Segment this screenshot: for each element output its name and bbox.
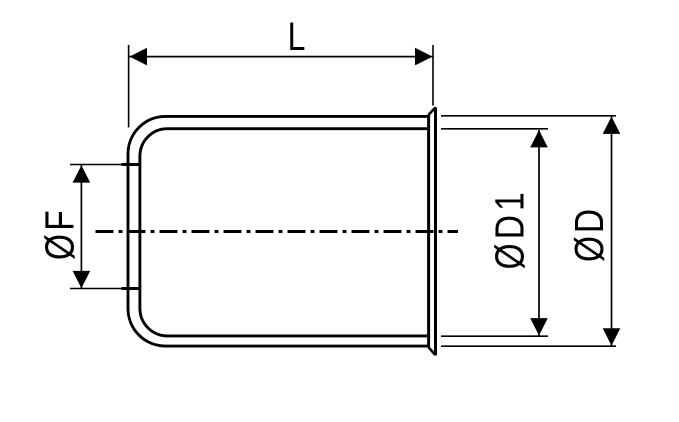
hole edge tick bottom bbox=[122, 287, 140, 290]
dimension D1 extension line bottom bbox=[441, 335, 548, 337]
flange bottom slant bbox=[429, 347, 436, 355]
flange right edge bbox=[434, 107, 437, 355]
dimension F arrow up bbox=[73, 165, 91, 182]
dimension D arrow up bbox=[603, 117, 621, 134]
centerline bbox=[96, 230, 459, 233]
flange top slant bbox=[429, 107, 436, 114]
dimension F extension line bottom bbox=[70, 288, 126, 290]
cap body inner contour bbox=[140, 129, 427, 336]
dimension F arrow down bbox=[73, 271, 91, 288]
dimension F extension line top bbox=[70, 164, 126, 166]
dimension D extension line top bbox=[441, 115, 616, 117]
dimension D extension line bottom bbox=[441, 345, 616, 347]
dimension L line bbox=[130, 56, 433, 58]
cap body outer contour bbox=[128, 116, 429, 346]
dimension D1 arrow down bbox=[530, 318, 548, 335]
dimension L extension line right bbox=[432, 45, 434, 106]
dimension D line bbox=[611, 117, 613, 346]
dimension F line bbox=[80, 165, 82, 289]
dimension D1 arrow up bbox=[530, 130, 548, 147]
svg-text:ØF: ØF bbox=[36, 207, 82, 260]
svg-text:ØD: ØD bbox=[566, 206, 612, 262]
dimension D1 extension line top bbox=[441, 128, 548, 130]
svg-text:ØD1: ØD1 bbox=[486, 188, 532, 269]
dimension L arrow right bbox=[415, 48, 433, 66]
svg-text:L: L bbox=[288, 14, 306, 59]
dimension D1 line bbox=[538, 130, 540, 336]
dimension L arrow left bbox=[130, 48, 148, 66]
dimension L extension line left bbox=[128, 45, 130, 127]
hole edge tick top bbox=[122, 163, 140, 166]
dimension D arrow down bbox=[603, 328, 621, 345]
flange left edge bbox=[427, 115, 430, 348]
